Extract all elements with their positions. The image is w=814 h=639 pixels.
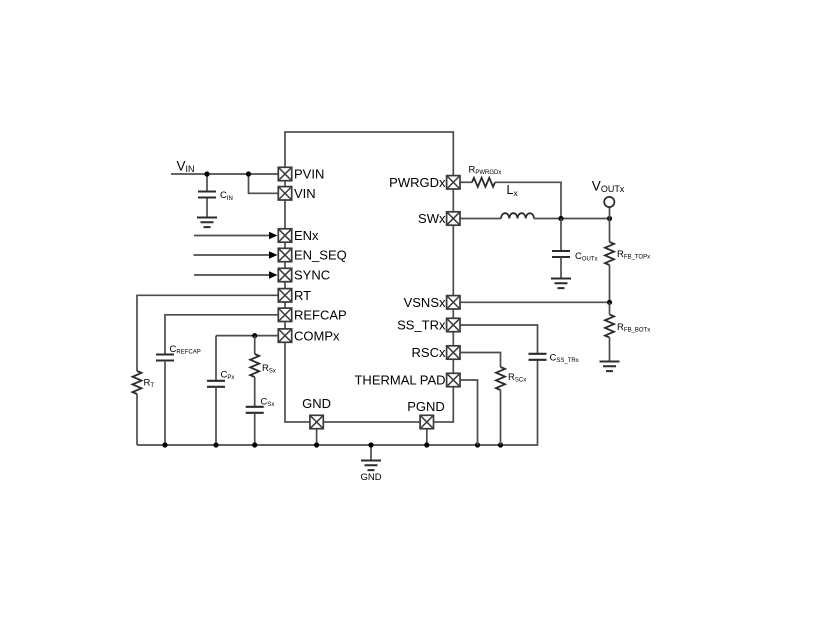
svg-text:RFB_BOTx: RFB_BOTx [617,322,650,334]
wire GND pin stem [316,429,318,445]
wire ground rail [137,360,538,445]
pin PWRGDx [447,176,460,189]
inductor Lx [501,213,534,218]
pin SYNC [278,268,291,281]
wire VIN pin branch [249,174,279,193]
wire SWx to inductor [460,218,501,220]
wire RPWRGDx to SW node [495,182,561,218]
svg-text:RT: RT [144,378,155,390]
arrow into EN_SEQ [194,251,278,259]
arrow into SYNC [194,271,278,279]
pin REFCAP [278,308,291,321]
svg-text:VIN: VIN [294,186,316,201]
resistor RSx [250,336,259,377]
junction dot CIN [204,171,209,176]
svg-text:VSNSx: VSNSx [404,295,446,310]
svg-text:ENx: ENx [294,228,319,243]
svg-text:REFCAP: REFCAP [294,308,347,323]
svg-text:RSx: RSx [262,363,276,375]
svg-text:RSCx: RSCx [508,372,526,384]
capacitor CREFCAP [156,355,174,446]
wire COMPx network [216,335,278,337]
svg-text:CIN: CIN [220,190,233,202]
junction dot rail thermal [475,442,480,447]
wire RSCx to resistor [460,353,501,368]
pin ENx [278,229,291,242]
pin SS_TRx [447,318,460,331]
svg-text:CSS_TRx: CSS_TRx [550,353,579,365]
svg-text:SS_TRx: SS_TRx [397,318,446,333]
wire REFCAP to CREFCAP [165,315,278,355]
wire SS_TRx to CSS_TRx [460,325,538,354]
svg-text:EN_SEQ: EN_SEQ [294,248,347,263]
junction dot SW node [558,216,563,221]
junction dot rail CREFCAP [162,442,167,447]
svg-text:RSCx: RSCx [412,345,446,360]
junction dot rail GND [314,442,319,447]
capacitor CSx [246,377,264,445]
junction dot rail RSCx [498,442,503,447]
junction dot VOUT node [607,216,612,221]
svg-text:VOUTx: VOUTx [592,179,625,195]
svg-text:SWx: SWx [418,211,446,226]
junction dot VIN-pin [246,171,251,176]
node VIN input wire [171,173,278,175]
svg-text:PGND: PGND [407,399,445,414]
pin GND [310,415,323,428]
terminal VOUTx [604,197,614,219]
pin EN_SEQ [278,248,291,261]
svg-text:COUTx: COUTx [575,251,598,263]
svg-text:COMPx: COMPx [294,328,340,343]
svg-text:PVIN: PVIN [294,167,324,182]
svg-text:VIN: VIN [177,158,195,174]
svg-text:RPWRGDx: RPWRGDx [469,165,502,177]
resistor RPWRGDx [472,178,495,187]
capacitor COUTx [552,219,570,279]
resistor RT [133,371,142,394]
svg-text:Lx: Lx [507,183,519,198]
pin SWx [447,212,460,225]
svg-text:GND: GND [302,396,331,411]
svg-text:CPx: CPx [221,370,235,382]
pin VIN [278,187,291,200]
junction dot rail CPx [213,442,218,447]
pin RSCx [447,346,460,359]
ground COUTx [551,279,571,289]
wire PWRGDx to resistor [460,181,472,183]
wire RT to RT resistor [137,295,278,371]
svg-text:RT: RT [294,288,311,303]
IC body U1 [285,132,453,422]
wire RT resistor to rail [136,394,138,445]
wire PGND pin stem [426,429,428,445]
svg-text:GND: GND [360,472,381,483]
ground main GND [361,445,381,470]
junction dot COMPx [252,333,257,338]
svg-text:PWRGDx: PWRGDx [389,175,446,190]
junction dot rail PGND [424,442,429,447]
resistor RFB_BOTx [605,302,614,361]
pin PVIN [278,167,291,180]
pin VSNSx [447,296,460,309]
wire THERMAL PAD to rail [460,380,478,445]
ground RFB_BOTx [600,362,620,372]
junction dot VSNS node [607,300,612,305]
svg-text:CREFCAP: CREFCAP [170,344,201,356]
svg-text:THERMAL PAD: THERMAL PAD [354,373,445,388]
resistor RSCx [496,367,505,445]
pin PGND [420,415,433,428]
svg-text:RFB_TOPx: RFB_TOPx [617,249,650,261]
capacitor CSS_TRx [529,354,547,360]
pin COMPx [278,329,291,342]
resistor RFB_TOPx [605,219,614,303]
junction dot rail CSx [252,442,257,447]
wire VSNSx [460,301,610,303]
ground CIN [197,218,217,228]
svg-text:CSx: CSx [261,397,275,409]
capacitor CIN [198,174,216,218]
svg-text:SYNC: SYNC [294,268,330,283]
arrow into ENx [194,232,278,240]
pin RT [278,289,291,302]
wire inductor to VOUT node [534,218,610,220]
pin THERMAL PAD [447,373,460,386]
junction dot rail gndsym [368,442,373,447]
capacitor CPx [207,336,225,445]
